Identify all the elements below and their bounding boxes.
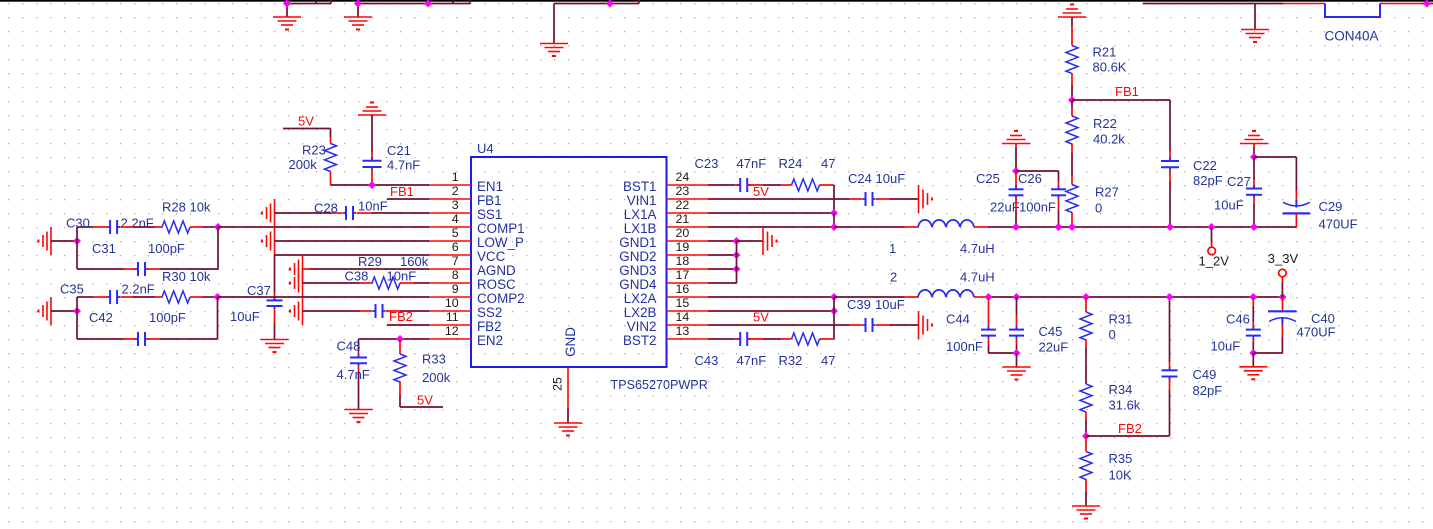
wire [148,338,160,340]
svg-text:FB1: FB1 [477,193,502,208]
wire [833,213,835,227]
svg-text:ROSC: ROSC [477,277,516,292]
wire [1058,171,1060,181]
wire [1085,297,1087,312]
wire [1015,199,1017,211]
wire [1211,242,1213,247]
wire [1071,100,1073,108]
svg-text:100pF: 100pF [148,241,185,256]
pin 24 BST1 [667,184,709,186]
svg-text:7: 7 [452,254,459,268]
wire [1015,171,1017,189]
capacitor C25 22uF [1009,188,1024,190]
svg-text:3: 3 [452,198,459,212]
junction [1250,223,1258,231]
capacitor C23 47nF [739,178,741,192]
junction [1249,349,1257,357]
wire [890,198,919,200]
svg-text:82pF: 82pF [1193,383,1223,398]
resistor R28 10k [162,221,190,233]
wire [1253,147,1255,157]
resistor R24 47 [792,179,820,191]
svg-text:FB2: FB2 [389,309,413,324]
ground [344,16,372,18]
svg-text:R22: R22 [1093,116,1117,131]
svg-text:C46: C46 [1226,312,1250,327]
svg-text:AGND: AGND [477,263,516,278]
svg-text:160k: 160k [400,254,429,269]
wire [1253,144,1255,148]
svg-text:C48: C48 [337,339,361,354]
wire EN2 [359,338,430,340]
svg-text:200k: 200k [422,370,451,385]
junction [1279,293,1287,301]
ground [345,409,373,411]
wire [124,268,135,270]
wire [203,226,218,228]
svg-text:R31: R31 [1109,312,1133,327]
svg-text:BST1: BST1 [623,179,657,194]
svg-text:FB2: FB2 [1118,421,1142,436]
capacitor C37 10uF [267,299,283,301]
wire [51,310,77,312]
wire [124,338,135,340]
net label 5V [753,310,769,325]
capacitor C40 470UF [1268,310,1297,312]
wire [1071,176,1073,185]
wire FB1 net [387,198,429,200]
svg-text:12: 12 [445,324,459,338]
wire [1015,210,1017,227]
svg-text:82pF: 82pF [1193,173,1223,188]
wire [1016,339,1018,345]
wire COMP2 [218,296,430,298]
wire [1085,480,1087,493]
svg-text:R30 10k: R30 10k [162,269,211,284]
resistor R35 10K [1080,452,1092,480]
wire [358,371,360,410]
wire [77,296,93,298]
svg-text:4: 4 [452,212,459,226]
ground [1002,143,1030,145]
wire [77,268,124,270]
wire [1085,340,1087,348]
wire GND4 [709,282,737,284]
wire [400,406,443,408]
wire [735,338,740,340]
junction [830,293,838,301]
wire [415,282,430,284]
capacitor C29 470UF [1295,200,1297,208]
wire [93,226,107,228]
wire [121,226,134,228]
wire [1169,100,1171,151]
svg-text:10nF: 10nF [387,269,417,284]
svg-text:LX1B: LX1B [624,221,657,236]
wire [1253,204,1255,227]
wire [133,296,155,298]
svg-text:C29: C29 [1319,199,1343,214]
ground [274,199,276,227]
svg-text:21: 21 [676,212,690,226]
wire [360,310,373,312]
wire [1252,322,1254,330]
wire [330,0,332,4]
wire [1071,17,1073,26]
capacitor C30 2.2nF [109,220,111,234]
wire [1071,85,1073,100]
junction [1068,96,1076,104]
capacitor C43 47nF [739,332,741,346]
wire 5V to R23 [283,128,331,130]
svg-text:10uF: 10uF [875,297,905,312]
ground [261,339,289,341]
junction [396,335,404,343]
pin 21 LX1B [667,226,709,228]
wire GND2 [709,254,737,256]
inductor L1 4.7uH [918,220,932,227]
svg-text:14: 14 [676,310,690,324]
junction [1055,223,1063,231]
wire [303,268,310,270]
junction [830,209,838,217]
junction [424,0,432,8]
wire [203,296,218,298]
wire FB2 net [1086,435,1170,437]
pin 20 GND1 [667,240,709,242]
resistor R33 200k [394,354,406,382]
wire [1282,297,1284,311]
ground [358,114,386,116]
wire [330,137,332,144]
ground [1240,143,1268,145]
wire COMP1 [218,226,429,228]
junction [733,265,741,273]
svg-text:C45: C45 [1039,324,1063,339]
svg-text:SS1: SS1 [477,207,502,222]
ground [1241,29,1269,31]
svg-text:22uF: 22uF [1039,340,1069,355]
pin 25 GND [567,367,569,409]
net label FB1 [1115,84,1139,99]
junction [1012,223,1020,231]
capacitor C39 10uF [865,318,867,332]
resistor R34 31.6k [1080,384,1092,412]
wire [217,297,219,339]
svg-text:22: 22 [676,198,690,212]
wire [1016,170,1059,172]
svg-text:1: 1 [452,170,459,184]
wire [469,0,471,4]
label 2 [890,270,897,285]
svg-text:SS2: SS2 [477,305,502,320]
label CON40A [1325,29,1379,44]
wire [133,226,155,228]
svg-text:47: 47 [821,156,835,171]
wire [1071,108,1073,116]
wire [1071,74,1073,86]
wire BST2 bootstrap [833,311,835,339]
wire [747,338,763,340]
capacitor C21 4.7nF [363,160,382,162]
ground [273,16,301,18]
svg-text:6: 6 [452,240,459,254]
junction [830,307,838,315]
wire top segment C [554,3,639,5]
svg-text:C30: C30 [66,216,90,231]
ground [50,227,52,255]
svg-text:2: 2 [452,184,459,198]
svg-text:80.6K: 80.6K [1093,60,1127,75]
svg-text:3_3V: 3_3V [1268,251,1299,266]
wire [330,172,332,186]
junction [1082,432,1090,440]
pin 12 EN2 [429,338,471,340]
ground [540,43,568,45]
svg-text:LX2B: LX2B [624,305,657,320]
wire LX1A [709,212,835,214]
wire [1422,3,1433,5]
capacitor C38 10nF [375,304,377,318]
wire VIN2 [709,324,850,326]
capacitor C48 4.7nF [350,357,367,359]
wire [371,152,373,161]
svg-text:100nF: 100nF [1019,200,1056,215]
junction [1013,293,1021,301]
wire [709,184,736,186]
svg-text:10uF: 10uF [1211,339,1241,354]
svg-text:R24: R24 [779,156,803,171]
svg-text:24: 24 [676,170,690,184]
wire [371,115,373,152]
wire [1281,283,1283,297]
wire [1015,147,1017,171]
top border line [0,0,1433,2]
wire [357,4,359,18]
wire VCC [275,254,430,256]
wire GND3 [709,268,737,270]
svg-text:R23: R23 [302,143,326,158]
wire [358,339,360,351]
inductor L2 4.7uH [918,290,932,297]
junction [1012,167,1020,175]
pin tick [452,0,454,3]
wire LX1B [709,226,835,228]
wire [1085,412,1087,420]
wire [1252,297,1254,306]
wire [400,282,415,284]
capacitor C28 10nF [345,206,347,220]
wire [303,310,360,312]
svg-text:R21: R21 [1093,45,1117,60]
svg-text:0: 0 [1109,327,1116,342]
label 1 [889,241,896,256]
pin 23 VIN1 [667,198,709,200]
wire [1253,198,1255,204]
svg-text:FB1: FB1 [1115,84,1139,99]
svg-text:VIN2: VIN2 [627,319,657,334]
svg-text:LX2A: LX2A [624,291,657,306]
net label FB2 [389,309,413,324]
wire R23 to EN1 [331,184,430,186]
wire [1295,190,1297,200]
wire [1058,210,1060,227]
resistor R27 0 [1066,185,1078,213]
wire [1281,337,1283,353]
svg-text:4.7uH: 4.7uH [960,270,995,285]
capacitor C22 82pF [1161,160,1179,162]
junction [283,0,291,8]
wire [1169,377,1171,391]
port 3_3V [1279,269,1287,277]
wire [76,241,78,269]
svg-text:FB1: FB1 [390,184,414,199]
wire [988,297,990,330]
wire BST1 bootstrap [833,185,835,213]
wire [331,212,343,214]
svg-text:R27: R27 [1095,185,1119,200]
svg-text:C26: C26 [1018,171,1042,186]
wire [781,184,792,186]
ground [50,297,52,325]
svg-text:LX1A: LX1A [624,207,657,222]
svg-text:10uF: 10uF [230,309,260,324]
svg-text:13: 13 [676,324,690,338]
wire [399,382,401,395]
svg-text:5V: 5V [753,310,769,325]
wire [553,4,555,44]
resistor R32 47 [792,333,820,345]
wire [1058,199,1060,211]
wire [1254,4,1256,30]
svg-text:FB2: FB2 [477,319,502,334]
svg-text:10K: 10K [1109,468,1132,483]
wire [988,339,990,345]
IC U4 TPS65270PWPR [471,157,667,367]
wire [737,240,764,242]
wire bus2 [834,296,904,298]
wire [1252,306,1254,322]
pin 1 EN1 [429,184,471,186]
port 1_2V [1208,247,1216,255]
junction [1013,349,1021,357]
svg-text:40.2k: 40.2k [1093,132,1125,147]
junction [73,307,81,315]
ground [918,185,920,213]
junction [1250,153,1258,161]
junction [733,237,741,245]
svg-text:VIN1: VIN1 [627,193,657,208]
wire AGND [309,268,429,270]
svg-text:5: 5 [452,226,459,240]
wire [1016,353,1018,367]
pin 2 FB1 [429,198,471,200]
wire [286,4,288,18]
wire [303,282,360,284]
pin 11 FB2 [429,324,471,326]
wire [904,296,918,298]
svg-text:10uF: 10uF [876,171,906,186]
wire [1281,325,1283,338]
svg-text:11: 11 [446,310,459,324]
wire [190,226,203,228]
svg-text:9: 9 [452,282,459,296]
wire [1169,171,1171,182]
pin 18 GND3 [667,268,709,270]
pin 13 BST2 [667,338,709,340]
wire [1281,277,1283,283]
junction [1249,293,1257,301]
wire [736,241,738,283]
wire [849,198,862,200]
wire FB2 net [387,324,429,326]
svg-text:R33: R33 [422,352,446,367]
junction [1166,223,1174,231]
ground [302,255,304,283]
wire [1071,153,1073,176]
ground [1072,505,1100,507]
svg-text:31.6k: 31.6k [1109,398,1141,413]
svg-text:R34: R34 [1109,382,1133,397]
wire bus2 out [988,296,1283,298]
svg-text:R29: R29 [358,254,382,269]
wire [76,297,78,311]
wire [1169,151,1171,161]
svg-text:U4: U4 [477,141,494,156]
capacitor C26 100nF [1051,188,1066,190]
ground [1003,366,1031,368]
svg-text:100nF: 100nF [946,339,983,354]
wire top segment B [358,3,470,5]
svg-text:18: 18 [676,254,690,268]
svg-text:GND1: GND1 [619,235,656,250]
capacitor C27 10uF [1246,188,1262,190]
wire [1071,26,1073,46]
wire [1295,157,1297,190]
svg-text:R28 10k: R28 10k [162,200,211,215]
pin 16 LX2A [667,296,709,298]
net label FB1 [390,184,414,199]
junction [214,223,222,231]
wire [274,323,276,340]
ground [302,297,304,325]
pin 6 VCC [429,254,471,256]
svg-text:C37: C37 [247,283,271,298]
wire [330,129,332,138]
pin 9 COMP2 [429,296,471,298]
wire [274,255,276,292]
svg-text:17: 17 [676,268,690,282]
pin 4 COMP1 [429,226,471,228]
svg-text:VCC: VCC [477,249,506,264]
label 3_3V [1268,251,1299,266]
svg-text:C24: C24 [848,171,872,186]
wire [93,296,107,298]
svg-text:2.2nF: 2.2nF [121,216,154,231]
svg-text:C22: C22 [1193,158,1217,173]
wire [1252,342,1254,353]
pin 7 AGND [429,268,471,270]
junction [368,181,376,189]
wire [1085,492,1087,506]
wire [988,345,990,353]
wire bus1 [834,226,904,228]
wire [1253,180,1255,189]
pin tick [315,0,317,3]
wire [155,226,162,228]
svg-text:5V: 5V [417,393,433,408]
wire [1016,297,1018,315]
